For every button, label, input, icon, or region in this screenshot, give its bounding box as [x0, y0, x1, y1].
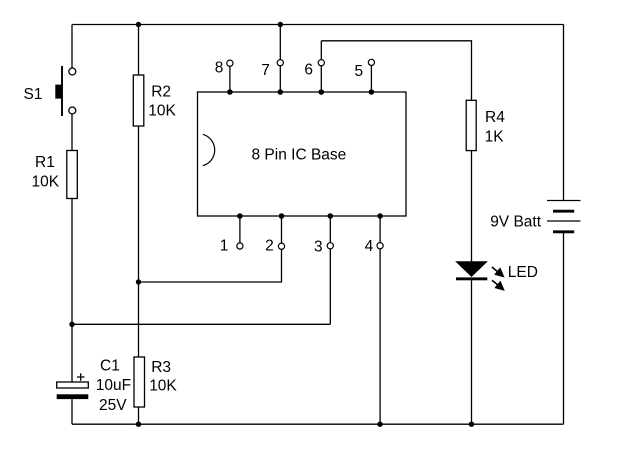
svg-text:3: 3 — [314, 239, 323, 256]
svg-text:S1: S1 — [24, 86, 43, 103]
wire R3 to bottom rail — [138, 407, 140, 424]
wire R2 to R3 — [138, 126, 140, 357]
svg-text:1: 1 — [220, 237, 229, 254]
wire R1 to node A — [71, 199, 73, 325]
svg-text:9V Batt: 9V Batt — [490, 213, 542, 230]
svg-text:6: 6 — [304, 61, 313, 78]
svg-text:LED: LED — [508, 264, 538, 281]
IC U1 8 pin base body — [198, 92, 407, 216]
svg-text:5: 5 — [355, 63, 364, 80]
svg-text:R2: R2 — [151, 83, 171, 100]
battery BT1 9V — [547, 201, 581, 232]
capacitor C1 — [57, 373, 89, 399]
resistor R2 — [133, 75, 144, 126]
svg-text:8 Pin IC Base: 8 Pin IC Base — [252, 147, 347, 164]
pin 2 wire and terminal — [278, 213, 284, 249]
label C1 10uF 25V — [96, 357, 131, 414]
svg-text:R3: R3 — [151, 359, 171, 376]
resistor R3 — [134, 357, 145, 407]
svg-text:2: 2 — [265, 238, 274, 255]
resistor R1 — [67, 151, 78, 199]
svg-text:7: 7 — [261, 62, 270, 79]
node pin4 bottom junction — [377, 422, 382, 427]
node R3 bottom junction — [136, 422, 141, 427]
node pin7 top junction — [278, 22, 283, 27]
pin 6 wire and terminal — [318, 41, 324, 95]
node A junction — [69, 322, 74, 327]
LED diode — [456, 262, 487, 281]
svg-text:R1: R1 — [35, 154, 55, 171]
node LED bottom junction — [469, 422, 474, 427]
node pin2 net junction — [136, 279, 141, 284]
wire battery to bottom rail — [563, 232, 565, 424]
svg-text:8: 8 — [215, 59, 224, 76]
label R4 1K — [485, 109, 506, 145]
wire node A to pin3 net — [72, 323, 330, 325]
pin 1 wire and terminal — [237, 213, 243, 249]
svg-text:1K: 1K — [485, 128, 505, 145]
label R3 10K — [149, 359, 177, 395]
label R2 10K — [148, 83, 176, 119]
wire LED to bottom rail — [471, 280, 473, 424]
svg-text:C1: C1 — [100, 357, 120, 374]
LED arrow 2 — [492, 280, 503, 289]
svg-text:4: 4 — [365, 238, 374, 255]
wire pin2 net horizontal — [139, 249, 282, 282]
wire S1 to R1 — [71, 114, 73, 150]
wire right rail top to battery — [563, 25, 565, 201]
svg-text:10K: 10K — [32, 174, 60, 191]
wire top rail — [72, 24, 564, 26]
pin 5 wire and terminal — [368, 59, 374, 94]
pin 3 wire and terminal — [327, 213, 333, 324]
svg-text:R4: R4 — [485, 109, 505, 126]
node R2 top junction — [136, 22, 141, 27]
wire top rail to R2 — [138, 25, 140, 76]
wire node A down to C1 — [71, 324, 73, 382]
svg-text:25V: 25V — [99, 397, 127, 414]
pin 4 wire and terminal — [377, 213, 383, 424]
wire R4 to LED — [471, 151, 473, 262]
svg-text:10uF: 10uF — [96, 377, 131, 394]
wire pin6 net to R4 — [321, 41, 471, 101]
svg-text:10K: 10K — [148, 103, 176, 120]
pin 8 wire and terminal — [227, 60, 233, 95]
LED arrow 1 — [492, 267, 503, 276]
svg-text:10K: 10K — [149, 378, 177, 395]
switch S1 — [55, 66, 76, 116]
wire C1 to bottom rail — [71, 399, 73, 424]
pin 7 wire and terminal — [277, 25, 283, 95]
label R1 10K — [32, 154, 60, 191]
wire left rail to S1 — [71, 25, 73, 69]
wire bottom rail — [72, 423, 564, 425]
resistor R4 — [466, 100, 476, 150]
